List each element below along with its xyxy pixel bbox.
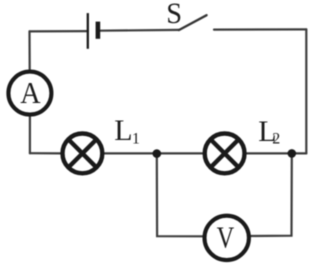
wire voltmeter branch right — [251, 153, 292, 236]
voltmeter U2 circle — [205, 216, 249, 260]
svg-text:A: A — [20, 75, 41, 110]
wire right side vertical — [305, 29, 307, 153]
svg-text:1: 1 — [132, 130, 140, 147]
wire left side lower (ammeter to lamp row) — [29, 117, 31, 153]
svg-text:2: 2 — [272, 131, 280, 148]
svg-text:L: L — [114, 114, 132, 147]
svg-text:S: S — [166, 0, 182, 30]
battery B1 — [88, 13, 98, 49]
wire voltmeter branch left — [157, 154, 203, 237]
wire switch to top-right corner — [214, 28, 306, 30]
svg-text:V: V — [217, 220, 235, 255]
node A junction dot — [153, 149, 162, 158]
wire top-left from corner to battery — [30, 30, 88, 32]
wire L1 to L2 through node A — [105, 152, 203, 154]
lamp L2 — [205, 134, 245, 174]
ammeter U1 circle — [8, 72, 51, 115]
wire left side upper (corner to ammeter) — [28, 31, 30, 69]
wire L2 to right side through node B — [247, 152, 306, 154]
wire battery to switch terminal — [100, 29, 179, 32]
wire lamp row: corner to L1 — [30, 152, 61, 154]
node B junction dot — [288, 149, 297, 158]
switch S lever — [179, 15, 207, 30]
lamp L1 — [63, 134, 103, 174]
